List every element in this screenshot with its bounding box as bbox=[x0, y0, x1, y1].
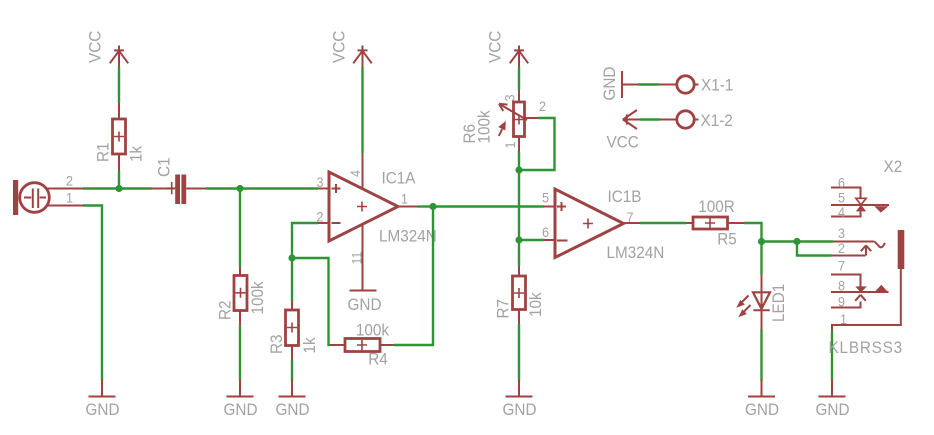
svg-text:1: 1 bbox=[66, 190, 73, 206]
svg-text:GND: GND bbox=[348, 295, 382, 314]
svg-text:GND: GND bbox=[503, 400, 537, 419]
svg-text:X1-1: X1-1 bbox=[701, 76, 733, 95]
supply VCC (R1) bbox=[110, 46, 128, 67]
wire IC1A pin2 to node D bbox=[292, 223, 318, 258]
ground (IC1A pin11) bbox=[348, 291, 382, 315]
microphone pin 1 bbox=[47, 205, 83, 207]
ground (R7) bbox=[503, 380, 537, 419]
wire R6 bottom to node E bbox=[518, 152, 520, 171]
capacitor C1 pin right bbox=[186, 188, 206, 190]
svg-text:KLBRSS3: KLBRSS3 bbox=[829, 338, 904, 357]
svg-text:IC1A: IC1A bbox=[382, 169, 416, 188]
svg-text:R3: R3 bbox=[267, 334, 286, 354]
wire node D to R3 bbox=[291, 258, 293, 301]
resistor R7 pin top bbox=[518, 266, 520, 276]
op-amp IC1A pin 3 lead bbox=[318, 188, 329, 190]
svg-text:3: 3 bbox=[316, 174, 323, 190]
capacitor C1 plus mark bbox=[167, 182, 177, 194]
resistor R2 body bbox=[234, 276, 247, 311]
svg-text:X2: X2 bbox=[884, 157, 903, 176]
resistor R3 plus mark bbox=[287, 323, 297, 333]
svg-text:R7: R7 bbox=[494, 299, 513, 319]
microphone MIC body bar bbox=[13, 180, 18, 215]
svg-text:R5: R5 bbox=[717, 230, 737, 249]
op-amp IC1B inverting minus bbox=[557, 240, 568, 242]
svg-text:2: 2 bbox=[838, 241, 845, 257]
resistor R3 pin bottom bbox=[291, 346, 293, 361]
svg-text:1k: 1k bbox=[300, 336, 319, 353]
wire node B to R2 bbox=[239, 189, 241, 268]
wire node F to R7 bbox=[518, 240, 520, 266]
microphone pin 2 bbox=[47, 188, 83, 190]
svg-text:VCC: VCC bbox=[607, 133, 640, 152]
svg-text:GND: GND bbox=[86, 400, 120, 419]
resistor R7 plus mark bbox=[514, 288, 524, 298]
svg-text:LM324N: LM324N bbox=[379, 227, 437, 246]
resistor R2 pin bottom bbox=[239, 311, 241, 327]
connector X2 plug bar bbox=[898, 230, 905, 269]
svg-text:1: 1 bbox=[840, 311, 847, 327]
svg-text:GND: GND bbox=[600, 67, 619, 101]
potentiometer R6 adjust arrow bbox=[498, 121, 506, 136]
potentiometer R6 pin 1 lead bbox=[518, 137, 520, 152]
wire R3 to GND bbox=[291, 360, 293, 381]
wire mic pin2 to main net bbox=[83, 187, 152, 189]
svg-text:3: 3 bbox=[838, 226, 845, 242]
wire LED1 to GND bbox=[760, 330, 762, 382]
svg-text:100k: 100k bbox=[248, 280, 267, 314]
connector X2 tip flag upper bbox=[874, 206, 888, 212]
resistor R5 pin right bbox=[728, 222, 745, 224]
resistor R4 plus mark bbox=[357, 340, 367, 350]
resistor R7 pin bottom bbox=[518, 310, 520, 325]
potentiometer R6 plus mark bbox=[514, 115, 524, 125]
wire IC1B output to R5 bbox=[640, 222, 686, 224]
wire node G to LED1 bbox=[760, 242, 762, 275]
svg-text:6: 6 bbox=[542, 224, 549, 240]
wire R7 to GND bbox=[518, 324, 520, 381]
connector pin X1-1 lead bbox=[659, 84, 699, 86]
capacitor C1 plates bbox=[175, 175, 180, 205]
node D junction feedback bbox=[288, 254, 295, 261]
connector X2 pin 5 bbox=[831, 204, 889, 206]
svg-text:GND: GND bbox=[224, 400, 258, 419]
connector X2 pin 7 bbox=[831, 275, 861, 287]
connector X2 pin 3 lead bbox=[833, 241, 875, 243]
resistor R2 plus mark bbox=[236, 288, 246, 298]
wire mic pin1 to GND bbox=[83, 206, 102, 382]
potentiometer R6 wiper diagonal arrow bbox=[499, 104, 527, 120]
connector X2 pin 9 bbox=[831, 302, 861, 308]
svg-text:100R: 100R bbox=[698, 197, 735, 216]
wire R1 to main net bbox=[118, 171, 120, 189]
wire node H to X2 pin3 bbox=[797, 240, 833, 242]
wire VCC to IC1A pin4 bbox=[361, 67, 363, 153]
connector X2 pin 2 lead bbox=[832, 255, 866, 257]
svg-text:100k: 100k bbox=[356, 321, 390, 340]
connector X2 pin 2 arrow contact bbox=[861, 245, 871, 255]
op-amp IC1A triangle bbox=[329, 172, 398, 241]
svg-text:VCC: VCC bbox=[86, 30, 105, 63]
op-amp IC1A output lead pin 1 bbox=[398, 206, 418, 208]
connector pin X1-2 circle bbox=[677, 111, 694, 128]
wire node E to node F bbox=[518, 170, 520, 240]
connector pin X1-1 circle bbox=[677, 76, 694, 93]
svg-text:1k: 1k bbox=[127, 145, 146, 162]
svg-text:GND: GND bbox=[276, 400, 310, 419]
node A junction mic/R1 bbox=[115, 185, 122, 192]
svg-text:6: 6 bbox=[838, 175, 845, 191]
connector X2 pin 3 hook contact bbox=[875, 242, 886, 248]
svg-text:11: 11 bbox=[349, 251, 365, 264]
svg-text:5: 5 bbox=[838, 190, 845, 206]
wire R5 to node G bbox=[744, 223, 762, 242]
resistor R2 pin top bbox=[239, 267, 241, 276]
wire VCC to X1-2 bbox=[640, 118, 660, 120]
node G junction LED bbox=[758, 238, 765, 245]
ground (LED1) bbox=[745, 380, 779, 419]
wire node H to X2 pin2 bbox=[797, 242, 832, 256]
microphone MIC circle bbox=[20, 183, 50, 213]
node C junction IC1A output bbox=[429, 203, 436, 210]
svg-text:VCC: VCC bbox=[486, 30, 505, 63]
svg-text:2: 2 bbox=[66, 173, 73, 189]
supply VCC (R6) bbox=[510, 46, 528, 68]
op-amp IC1A pin 4 lead bbox=[362, 153, 364, 189]
svg-text:R2: R2 bbox=[216, 300, 235, 320]
op-amp IC1A inverting minus bbox=[332, 222, 341, 224]
capacitor C1 pin left bbox=[152, 188, 175, 190]
op-amp IC1B center plus bbox=[583, 219, 593, 229]
resistor R3 body bbox=[286, 310, 299, 346]
svg-text:LED1: LED1 bbox=[769, 284, 788, 322]
connector pin X1-2 lead bbox=[660, 119, 699, 121]
svg-text:R4: R4 bbox=[368, 350, 388, 369]
resistor R7 body bbox=[513, 276, 526, 310]
svg-text:7: 7 bbox=[838, 258, 845, 274]
ground (R2) bbox=[224, 380, 258, 419]
svg-text:10k: 10k bbox=[526, 291, 545, 317]
connector X2 pin 8 bbox=[831, 291, 889, 293]
op-amp IC1B output lead pin 7 bbox=[624, 222, 641, 224]
wire X2 pin1 to GND bbox=[831, 331, 833, 381]
node B junction R2 bbox=[236, 185, 243, 192]
wire node C to IC1B pin5 bbox=[433, 205, 544, 207]
LED LED1 light arrow 2 bbox=[738, 305, 750, 317]
wire R2 to GND bbox=[239, 326, 241, 381]
connector X2 switch filled triangle bbox=[856, 205, 866, 212]
potentiometer R6 body bbox=[514, 102, 525, 137]
svg-text:4: 4 bbox=[347, 170, 363, 177]
resistor R4 pin right bbox=[380, 344, 394, 346]
resistor R5 plus mark bbox=[705, 218, 715, 228]
svg-text:9: 9 bbox=[838, 294, 845, 310]
potentiometer R6 pin 3 lead bbox=[518, 90, 520, 102]
svg-text:3: 3 bbox=[502, 94, 518, 101]
resistor R1 plus mark bbox=[114, 132, 124, 142]
potentiometer R6 pin 2 wiper lead bbox=[525, 117, 539, 119]
wire GND to X1-1 bbox=[638, 83, 659, 85]
supply VCC (X1-2) left arrow bbox=[623, 110, 641, 129]
resistor R1 body bbox=[113, 119, 126, 154]
LED LED1 triangle bbox=[753, 292, 770, 309]
wire node D to R4 left bbox=[292, 258, 330, 345]
svg-text:R1: R1 bbox=[94, 142, 113, 162]
op-amp IC1A center plus bbox=[357, 202, 367, 212]
LED LED1 light arrow 1 bbox=[736, 296, 748, 308]
svg-text:8: 8 bbox=[838, 278, 845, 294]
resistor R1 pin bottom bbox=[118, 154, 120, 171]
ground (X2) bbox=[816, 380, 850, 419]
supply VCC (IC1A pin4) bbox=[353, 46, 371, 68]
svg-text:GND: GND bbox=[745, 400, 779, 419]
microphone MIC capacitor glyph bbox=[24, 197, 46, 199]
resistor R5 body bbox=[693, 217, 728, 229]
svg-text:X1-2: X1-2 bbox=[701, 111, 733, 130]
wire R4 right to node C bbox=[394, 207, 433, 346]
node E junction R6 bbox=[515, 166, 522, 173]
op-amp IC1A pin 2 lead bbox=[318, 222, 329, 224]
resistor R5 pin left bbox=[686, 222, 693, 224]
connector X2 switch open triangle bbox=[856, 198, 866, 205]
LED LED1 anode lead bbox=[761, 275, 763, 330]
wire node G to node H bbox=[762, 240, 798, 242]
svg-text:1: 1 bbox=[401, 191, 408, 207]
op-amp IC1B pin 5 lead bbox=[544, 206, 555, 208]
ground (mic) bbox=[86, 380, 120, 419]
svg-text:C1: C1 bbox=[155, 157, 174, 177]
ground (R3) bbox=[276, 380, 310, 419]
wire VCC to R6 bbox=[518, 67, 520, 90]
wire node F to IC1B pin6 bbox=[519, 239, 544, 241]
connector X2 pin 4 bbox=[831, 211, 861, 216]
wire R6 wiper loop bbox=[519, 118, 555, 170]
node F junction IC1B pin6/R7 bbox=[515, 236, 522, 243]
connector X2 pin 1 lead bbox=[832, 269, 901, 331]
svg-text:100k: 100k bbox=[475, 109, 494, 143]
svg-text:VCC: VCC bbox=[330, 30, 349, 63]
wire IC1A output to node C bbox=[418, 205, 434, 207]
connector X2 pin 6 bbox=[831, 188, 861, 199]
svg-text:4: 4 bbox=[838, 204, 845, 220]
svg-text:IC1B: IC1B bbox=[608, 187, 642, 206]
resistor R3 pin top bbox=[291, 301, 293, 310]
node H junction X2 bbox=[793, 238, 800, 245]
op-amp IC1B triangle bbox=[555, 189, 624, 258]
svg-text:GND: GND bbox=[816, 400, 850, 419]
wire VCC to R1 bbox=[118, 67, 120, 104]
resistor R1 pin top bbox=[118, 103, 120, 119]
ground (X1-1) rotated bbox=[622, 71, 638, 98]
resistor R4 pin left bbox=[330, 344, 345, 346]
op-amp IC1B noninverting plus bbox=[557, 202, 566, 211]
connector X2 pin 9 arrow contact bbox=[855, 295, 866, 301]
connector X2 tip flag lower bbox=[874, 285, 889, 293]
svg-text:5: 5 bbox=[542, 190, 549, 206]
svg-text:LM324N: LM324N bbox=[607, 243, 665, 262]
svg-text:2: 2 bbox=[539, 98, 546, 114]
connector X2 filled down triangle bbox=[855, 286, 867, 292]
op-amp IC1A noninverting plus bbox=[332, 184, 341, 193]
svg-text:1: 1 bbox=[502, 141, 518, 148]
op-amp IC1A pin 11 lead bbox=[362, 224, 364, 291]
op-amp IC1B pin 6 lead bbox=[544, 239, 555, 241]
LED LED1 cathode bar bbox=[753, 309, 769, 311]
wire C1 to IC1A pin3 bbox=[206, 187, 318, 189]
resistor R4 body bbox=[345, 339, 380, 352]
